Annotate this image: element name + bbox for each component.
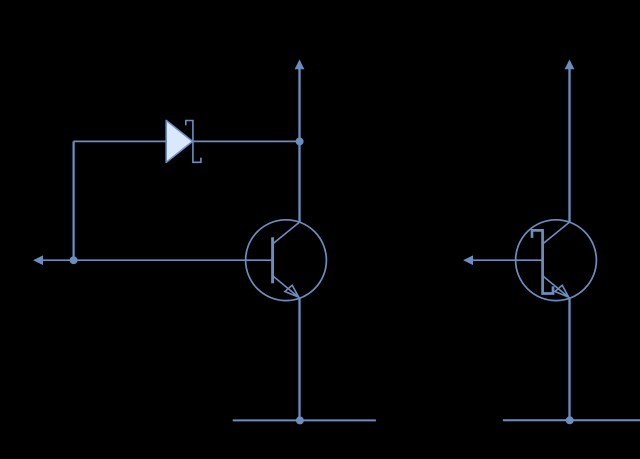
- node: diode-collector junction dot: [296, 137, 304, 145]
- wire: right emitter to ground: [568, 298, 570, 420]
- arrow: right Vcc up-arrow: [565, 60, 574, 69]
- diode D1 (Schottky) triangle: [166, 120, 192, 162]
- wire: right base lead (horizontal): [472, 259, 543, 261]
- transistor Q2 Schottky base bar: [532, 230, 553, 293]
- transistor Q2 emitter stroke: [543, 276, 570, 298]
- node: base junction dot: [70, 256, 78, 264]
- wire: right collector supply (vertical): [568, 68, 570, 223]
- transistor Q2 circle: [516, 220, 597, 301]
- wire: diode anode lead: [74, 140, 167, 142]
- node: left ground junction dot: [296, 416, 304, 424]
- ground rail (left): [233, 419, 376, 421]
- wire: diode cathode lead to collector: [193, 140, 300, 142]
- arrow: left base input arrow: [34, 256, 43, 265]
- transistor Q2 collector stroke: [543, 222, 570, 244]
- node: right ground junction dot: [566, 416, 574, 424]
- transistor Q2 emitter arrowhead: [555, 285, 569, 297]
- wire: left emitter to ground: [298, 298, 300, 420]
- wire: left base lead (horizontal): [42, 259, 273, 261]
- arrow: left Vcc up-arrow: [295, 60, 304, 69]
- arrow: right base input arrow: [464, 256, 473, 265]
- transistor Q1 emitter stroke: [273, 276, 300, 298]
- wire: left collector supply (vertical): [298, 68, 300, 223]
- transistor Q1 base bar: [271, 237, 274, 283]
- transistor Q1 emitter arrowhead: [285, 285, 299, 297]
- transistor Q1 collector stroke: [273, 222, 300, 244]
- ground rail (right): [503, 419, 640, 421]
- wire: feedback from base node up to diode: [72, 141, 74, 260]
- transistor Q1 circle: [246, 220, 327, 301]
- diode D1 Schottky cathode bar: [186, 121, 201, 163]
